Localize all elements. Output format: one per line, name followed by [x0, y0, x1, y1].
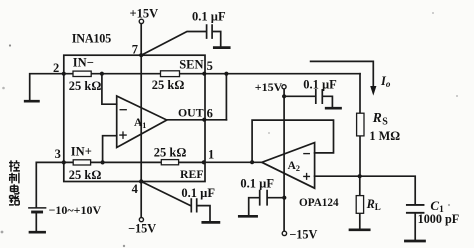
minus sign A1	[120, 109, 126, 111]
plus sign A1	[120, 132, 126, 138]
node pin 2	[62, 72, 66, 76]
ground (RL)	[350, 228, 369, 231]
resistor 25k (IN-)	[73, 71, 91, 76]
svg-text:−15V: −15V	[289, 228, 317, 242]
svg-text:RS: RS	[372, 110, 388, 127]
resistor 25k (REF)	[161, 160, 178, 165]
wire: +15V terminal to pin 7	[140, 24, 142, 55]
label control circuit (hanzi)	[9, 160, 20, 205]
wire: +15V to bypass cap (right)	[284, 95, 315, 97]
svg-text:A1: A1	[134, 117, 146, 130]
resistor RS	[357, 113, 364, 136]
svg-text:25 kΩ: 25 kΩ	[69, 168, 102, 182]
label Io with arrow	[311, 61, 374, 86]
node pin 5	[202, 72, 206, 76]
node pin7 junction	[139, 53, 143, 57]
wire: A2 noninverting input to load node and C1	[315, 176, 416, 204]
svg-text:IN−: IN−	[73, 56, 94, 70]
ground (battery)	[30, 231, 45, 234]
ground (pin 2)	[25, 100, 38, 103]
capacitor C1	[407, 204, 424, 206]
svg-text:+15V: +15V	[255, 80, 283, 94]
svg-text:2: 2	[53, 61, 59, 75]
node pin 4	[139, 179, 143, 183]
wire: cap to ground (top)	[213, 32, 221, 47]
plus sign A2	[304, 174, 310, 180]
svg-text:0.1 µF: 0.1 µF	[181, 186, 215, 200]
ground (C1)	[405, 240, 424, 243]
node pin 3	[62, 160, 66, 164]
wire: pin7 to bypass cap (diagonal)	[141, 32, 206, 56]
svg-text:1: 1	[208, 148, 214, 162]
capacitor 0.1uF (right V+ bypass)	[316, 90, 323, 103]
node +15V bypass tap	[282, 94, 286, 98]
power rail +15V to -15V through A2	[283, 89, 285, 231]
resistor 25k (IN+)	[73, 160, 90, 165]
resistor RL	[356, 196, 363, 214]
node pin5/out corner	[224, 72, 228, 76]
ground (A2 cap)	[239, 215, 256, 218]
svg-text:6: 6	[207, 106, 213, 120]
svg-text:7: 7	[132, 43, 138, 57]
svg-text:0.1 µF: 0.1 µF	[303, 77, 337, 91]
svg-text:OUT: OUT	[178, 106, 204, 120]
wire: internal bottom rail pin3 to pin1	[64, 161, 204, 163]
ground (pin4 cap)	[203, 221, 219, 224]
terminal -15V (right)	[282, 231, 286, 235]
wire: pin4 to -15V terminal	[140, 182, 142, 218]
wire: pin3 to control source	[36, 162, 64, 207]
svg-text:OPA124: OPA124	[299, 197, 339, 209]
wire: top rail down to RS	[359, 74, 361, 177]
wire: cap to ground (pin4)	[197, 206, 210, 222]
node pin 1	[202, 160, 206, 164]
terminal +15V (right)	[282, 85, 286, 89]
op-amp A1	[117, 96, 167, 148]
capacitor 0.1uF (top, V+ bypass)	[207, 25, 213, 38]
wire: cap to ground (right)	[323, 96, 332, 107]
IC box INA105	[64, 55, 205, 181]
svg-text:1 MΩ: 1 MΩ	[369, 129, 400, 143]
wire: IN- tap to A1 inverting input	[102, 74, 117, 105]
svg-text:5: 5	[207, 59, 213, 73]
node V- bypass tap	[282, 196, 286, 200]
svg-text:A2: A2	[288, 160, 300, 173]
ground (right cap)	[326, 107, 340, 110]
wire: V- bypass cap (A2)	[249, 198, 285, 216]
svg-text:INA105: INA105	[72, 32, 111, 46]
arrowhead Io	[370, 86, 376, 96]
wire: C1 to ground	[414, 214, 416, 241]
wire: pin4 diagonal to bypass cap	[141, 182, 190, 206]
capacitor 0.1uF (A2 V- bypass)	[260, 191, 267, 205]
svg-text:IN+: IN+	[71, 145, 92, 159]
svg-text:0.1 µF: 0.1 µF	[240, 176, 274, 190]
wire: pin 2 to ground branch	[30, 74, 64, 101]
wire: internal top rail pin2 to pin5	[64, 73, 205, 75]
wire: A1 noninverting input tap	[103, 136, 117, 163]
resistor 25k (SEN)	[161, 71, 180, 77]
terminal -15V (left)	[139, 218, 143, 222]
wire: load node to RL	[359, 176, 361, 229]
battery source -10~+10V	[29, 207, 46, 209]
wire: A1 output to pin6 and right	[167, 119, 227, 121]
svg-text:SEN: SEN	[179, 58, 203, 72]
ground (top right of INA105)	[214, 46, 229, 49]
svg-text:4: 4	[132, 182, 139, 196]
wire: pin5 node to feedback corner and right rail	[205, 74, 360, 120]
capacitor 0.1uF (REF/V- bypass)	[191, 199, 196, 212]
svg-text:+15V: +15V	[130, 6, 159, 20]
node pin 6	[202, 118, 206, 122]
minus sign A2	[304, 153, 309, 155]
svg-text:REF: REF	[180, 167, 204, 181]
power rail pin7 to pin4 through A1	[140, 55, 142, 181]
svg-text:RL: RL	[366, 197, 381, 212]
node A2 output	[250, 160, 254, 164]
svg-text:−15V: −15V	[128, 221, 156, 235]
node load (RS/RL)	[358, 174, 362, 178]
node IN+ tap	[101, 160, 105, 164]
svg-text:1000 pF: 1000 pF	[418, 212, 460, 226]
svg-text:Io: Io	[380, 74, 391, 89]
node IN- tap	[100, 72, 104, 76]
svg-text:3: 3	[55, 147, 61, 161]
terminal +15V (left)	[139, 19, 143, 23]
wire: A2 feedback loop	[252, 120, 333, 162]
wire: pin1 to A2 output	[204, 161, 262, 163]
svg-text:25 kΩ: 25 kΩ	[152, 78, 185, 92]
svg-text:25 kΩ: 25 kΩ	[154, 146, 187, 160]
svg-text:−10~+10V: −10~+10V	[49, 203, 102, 217]
svg-text:25 kΩ: 25 kΩ	[69, 79, 102, 93]
op-amp A2 (pointing left)	[262, 143, 315, 189]
svg-text:0.1 µF: 0.1 µF	[192, 10, 226, 24]
